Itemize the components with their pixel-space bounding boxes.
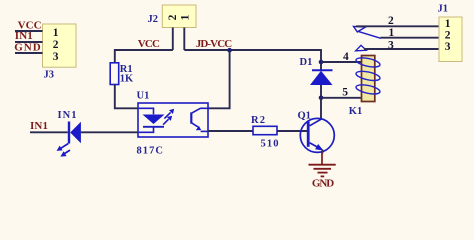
svg-text:3: 3 [445, 41, 451, 53]
connector J2 [148, 5, 197, 28]
wire IN1 input to LED cathode [30, 131, 68, 133]
ground bar 3 [318, 172, 328, 174]
LED triangle [70, 122, 81, 143]
svg-text:R2: R2 [251, 115, 265, 126]
svg-text:4: 4 [343, 51, 349, 63]
coil turn 3 [355, 83, 380, 96]
svg-text:2: 2 [388, 15, 394, 27]
Q1 emitter lead with arrow [310, 143, 317, 147]
relay contact blade [358, 31, 381, 38]
diode D1 triangle [310, 71, 333, 85]
U1 phototransistor emitter lead with arrow [192, 123, 199, 127]
node junction JD-VCC / U1 collector branch [227, 48, 232, 53]
wire R1 bottom to U1 anode pin [115, 85, 138, 109]
svg-text:1: 1 [53, 27, 59, 39]
node junction relay pin5 branch [319, 96, 324, 101]
resistor R2 [251, 115, 279, 150]
Q1 circle [300, 118, 334, 152]
wire GND stub to J3 pin3 [15, 52, 43, 54]
U1 internal LED cathode bar [143, 126, 164, 128]
relay contact NC triangle [354, 26, 366, 32]
wire LED anode to U1 cathode pin [81, 131, 138, 133]
wire J2 pin2 down [172, 28, 174, 51]
U1 internal LED anode lead [139, 108, 154, 114]
svg-text:1: 1 [445, 18, 451, 30]
svg-text:J1: J1 [438, 3, 449, 14]
svg-text:JD-VCC: JD-VCC [196, 38, 232, 50]
LED cathode bar [68, 122, 70, 144]
LED emission arrow 1 [60, 144, 68, 149]
svg-text:GND: GND [312, 177, 334, 189]
ground [309, 153, 336, 190]
wire IN1 stub to J3 pin2 [15, 41, 43, 43]
svg-text:5: 5 [342, 86, 348, 98]
svg-text:IN1: IN1 [15, 30, 33, 42]
resistor R2 body [253, 126, 277, 134]
connector J1 [438, 3, 463, 61]
wire to relay coil pin 4 [321, 61, 362, 63]
U1 body [138, 103, 208, 137]
relay contact NO triangle [356, 45, 367, 51]
wire VCC stub to J3 pin1 [15, 30, 43, 32]
svg-text:510: 510 [261, 139, 279, 150]
U1 internal LED triangle [143, 115, 165, 125]
U1 coupling arrow 2 [163, 119, 169, 125]
relay K1 coil [349, 56, 381, 117]
svg-text:VCC: VCC [138, 38, 160, 50]
wire D1 anode down [320, 85, 322, 98]
wire U1 collector pin to JD-VCC [208, 50, 230, 108]
svg-text:1: 1 [180, 14, 192, 20]
LED emission arrow 2 [64, 150, 70, 154]
resistor R1 body [110, 63, 119, 85]
U1 internal LED cathode lead [139, 127, 154, 133]
svg-text:2: 2 [167, 14, 179, 20]
svg-text:3: 3 [53, 51, 59, 63]
svg-text:U1: U1 [137, 91, 150, 102]
svg-text:K1: K1 [349, 106, 362, 117]
wire R2 to Q1 base [277, 130, 307, 132]
wire NO pin 3 to J1 [364, 48, 439, 50]
resistor R1 [110, 63, 134, 85]
diode D1 cathode bar [312, 69, 333, 71]
optocoupler U1 817C [137, 91, 209, 157]
node junction relay pin4 branch [319, 60, 324, 65]
wire Q1 emitter down [321, 150, 323, 154]
Q1 collector lead [310, 119, 322, 126]
diode D1 [300, 57, 333, 85]
wire pole pin 1 to J1 [381, 37, 440, 39]
U1 phototransistor collector lead [192, 108, 209, 113]
connector J1 body [439, 17, 462, 62]
connector J2 body [162, 5, 196, 28]
svg-text:D1: D1 [300, 57, 313, 68]
U1 coupling arrow 1 [164, 112, 170, 118]
ground bar 2 [314, 168, 332, 170]
transistor Q1 [298, 110, 335, 152]
coil turn 1 [355, 56, 380, 69]
wire J2 pin1 down [183, 28, 185, 51]
coil turn 2 [355, 70, 380, 83]
svg-text:1K: 1K [120, 73, 134, 84]
svg-text:2: 2 [445, 30, 451, 42]
relay K1 body [362, 56, 375, 102]
connector J3 body [43, 24, 77, 67]
Q1 base bar [307, 122, 310, 147]
wire U1 emitter pin to R2 [208, 130, 253, 132]
wire JD-VCC net to D1 [184, 50, 321, 70]
svg-text:J3: J3 [44, 70, 55, 81]
connector J3 [43, 24, 77, 81]
svg-text:J2: J2 [148, 14, 159, 25]
svg-text:817C: 817C [137, 146, 164, 157]
ground stem [321, 153, 323, 165]
wire to relay coil pin 5 [321, 97, 362, 99]
svg-text:1: 1 [389, 27, 395, 39]
U1 phototransistor base bar [190, 112, 192, 123]
svg-text:3: 3 [388, 39, 394, 51]
svg-text:IN1: IN1 [58, 110, 77, 121]
ground bar 4 [321, 175, 325, 177]
svg-text:GND: GND [14, 42, 41, 54]
svg-text:2: 2 [53, 39, 59, 51]
LED IN1 (indicator diode) [57, 110, 81, 156]
svg-text:IN1: IN1 [30, 120, 48, 132]
ground bar 1 [309, 164, 336, 166]
wire contact common pin 2 to J1 [356, 25, 439, 27]
wire VCC net to R1 top [115, 50, 173, 63]
wire junction to Q1 collector [320, 98, 322, 120]
